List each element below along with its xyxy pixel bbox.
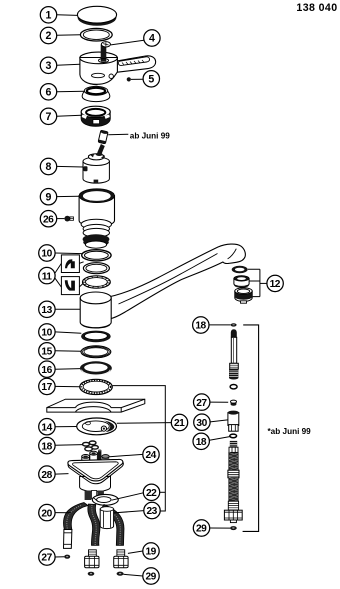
- callout 14 at (46.9,426.7): [39, 419, 55, 435]
- part 10 o-ring upper: [82, 250, 111, 261]
- leader line 23: [114, 511, 144, 513]
- part 19 collars: [89, 550, 125, 557]
- part 20 hose middle: [88, 504, 100, 545]
- leader line 6: [57, 90, 85, 93]
- svg-text:10: 10: [41, 328, 52, 339]
- svg-text:1: 1: [46, 10, 52, 22]
- part 27 cap right: [231, 400, 237, 406]
- callout 18 at (201.2,441.3): [193, 433, 209, 449]
- svg-text:26: 26: [43, 214, 54, 225]
- leader line 14: [55, 426, 77, 428]
- part 20 pipe end left: [64, 530, 72, 549]
- leader line 28: [55, 473, 68, 476]
- base plate: [47, 399, 145, 412]
- part 4 screw: [99, 42, 111, 63]
- svg-text:138 040: 138 040: [296, 2, 337, 14]
- svg-text:20: 20: [41, 508, 52, 519]
- part 20 hose left: [63, 503, 88, 530]
- callout 24 at (151,454.5): [143, 446, 159, 462]
- callout 27 at (46.9,557): [39, 549, 55, 565]
- svg-text:18: 18: [195, 321, 206, 332]
- callout 10 at (46.9,253): [39, 245, 55, 261]
- svg-text:21: 21: [174, 418, 185, 429]
- svg-text:12: 12: [270, 279, 281, 290]
- callout 1 at (48.5,14.8): [40, 7, 56, 23]
- svg-text:29: 29: [146, 572, 157, 583]
- svg-text:7: 7: [46, 111, 52, 123]
- svg-text:*ab Juni 99: *ab Juni 99: [268, 427, 312, 436]
- part 16 seal ring (black): [80, 361, 112, 375]
- callout 10 at (46.9,331.9): [39, 324, 55, 340]
- callout 18 at (46.9,445.6): [39, 437, 55, 453]
- callout 30 at (201.9,422.2): [194, 414, 210, 430]
- flex hose right: [224, 441, 242, 523]
- callout 4 at (151.9,38): [144, 30, 160, 46]
- callout 26 at (48.5,218.7): [40, 211, 56, 227]
- leader line 7: [57, 114, 82, 117]
- leader line 22: [112, 493, 144, 500]
- leader line 3: [57, 64, 80, 65]
- leader line 24: [109, 454, 142, 456]
- part 22 slip washer: [92, 494, 118, 505]
- callout 5 at (151.3,78.8): [143, 71, 159, 87]
- leader line 19: [128, 551, 143, 553]
- part 28 flange skirt: [80, 477, 111, 492]
- adapter ab Juni 99 (top): [98, 130, 108, 144]
- part 8 cartridge: [83, 144, 109, 183]
- leader line 20: [55, 512, 71, 514]
- leader line 8: [57, 165, 83, 168]
- part 2 o-ring: [80, 28, 112, 41]
- leader line 18 left: [55, 444, 83, 447]
- leader line 18 right lower: [209, 437, 229, 441]
- svg-text:30: 30: [196, 418, 207, 429]
- part 14 base gasket: [77, 418, 117, 435]
- part 24 studs: [82, 449, 109, 473]
- leader line 26: [57, 218, 65, 220]
- symbol box 11b: [61, 277, 79, 295]
- part 17 ring: [80, 379, 113, 394]
- svg-text:23: 23: [147, 506, 158, 517]
- svg-text:24: 24: [146, 450, 157, 461]
- part 7 mounting nut: [81, 106, 110, 126]
- callout 19 at (151,551): [143, 543, 159, 559]
- part 18 washer right top: [231, 323, 237, 326]
- leader line 18 right top: [209, 324, 231, 326]
- callout 8 at (48.5,166.5): [40, 158, 56, 174]
- callout 29 at (151,576): [143, 568, 159, 584]
- part 3 handle cup: [80, 52, 118, 85]
- leader line 29 bottom: [123, 574, 142, 576]
- part 12 aerator housing: [235, 288, 252, 303]
- leader line 2: [57, 34, 81, 37]
- leader line 22 to bracket: [160, 491, 166, 493]
- leader line 16: [55, 368, 80, 371]
- part 18 o-rings left: [83, 441, 99, 451]
- leader line 21: [117, 422, 171, 425]
- svg-text:11: 11: [42, 271, 53, 282]
- callout 17 at (46.9,386.4): [39, 378, 55, 394]
- callout 18 at (200.8,325): [193, 317, 209, 333]
- part 11 seal ring b: [83, 276, 111, 288]
- callout 13 at (46.9,309.3): [39, 301, 55, 317]
- part 6 ring: [82, 86, 110, 101]
- svg-text:16: 16: [41, 365, 52, 376]
- callout 2 at (48.5,35.5): [40, 27, 56, 43]
- leader lines 11 to boxes: [55, 264, 61, 288]
- part 23 mounting nut: [100, 507, 113, 529]
- part 9 cartridge cover: [79, 189, 114, 248]
- callout 22 at (151.5,492.3): [143, 484, 159, 500]
- part 26 screw: [64, 216, 73, 222]
- small ring right: [230, 385, 237, 389]
- part 13 spout base cylinder: [80, 292, 111, 328]
- part 28 flange plate: [68, 459, 123, 483]
- callout 29 at (201.5,528): [193, 520, 209, 536]
- svg-text:2: 2: [46, 30, 52, 42]
- leader line 10 upper: [55, 252, 82, 255]
- svg-text:27: 27: [41, 553, 52, 564]
- svg-text:29: 29: [196, 524, 207, 535]
- bracket 21 group: [113, 386, 166, 511]
- leader line 1: [57, 14, 78, 17]
- svg-text:9: 9: [46, 191, 52, 203]
- svg-text:15: 15: [41, 347, 52, 358]
- leader line 27 right: [210, 401, 228, 403]
- part 12 aerator insert: [234, 276, 249, 288]
- callout 7 at (48.5,116.3): [40, 108, 56, 124]
- leader line 17: [55, 385, 80, 387]
- leader line 30: [210, 420, 228, 422]
- part 29 washer right: [230, 526, 237, 530]
- svg-text:18: 18: [41, 441, 52, 452]
- part 28 studs below skirt: [85, 491, 104, 501]
- callout 3 at (48.5,65.3): [40, 57, 56, 73]
- svg-text:13: 13: [41, 305, 52, 316]
- part 10 o-ring lower (black): [81, 331, 111, 343]
- svg-text:10: 10: [41, 249, 52, 260]
- callout 21 at (179.5,422.5): [171, 414, 187, 430]
- leader lines boxes to rings: [80, 262, 84, 287]
- leader line 13: [55, 308, 80, 310]
- leader line 9: [57, 195, 79, 197]
- part 3 handle lever: [109, 56, 155, 73]
- svg-text:28: 28: [41, 470, 52, 481]
- symbol box 11a: [61, 255, 79, 273]
- svg-text:3: 3: [46, 60, 52, 72]
- svg-text:4: 4: [149, 33, 155, 45]
- callout 12 at (275.1,283.4): [267, 275, 283, 291]
- part 11 seal ring a: [83, 263, 109, 274]
- leader line 10 lower: [55, 332, 81, 333]
- leader line ab Juni 99 top: [108, 133, 128, 136]
- part 27 washer left: [64, 555, 70, 559]
- callout 16 at (46.9,369.2): [39, 361, 55, 377]
- part 5 plug button: [127, 77, 131, 81]
- callout 15 at (46.9,350.8): [39, 343, 55, 359]
- leader line 29 right: [210, 527, 230, 529]
- svg-text:14: 14: [41, 422, 52, 433]
- part 12 aerator o-ring: [232, 266, 248, 273]
- svg-text:6: 6: [46, 87, 52, 99]
- svg-text:ab Juni 99: ab Juni 99: [130, 132, 170, 141]
- svg-text:17: 17: [41, 382, 52, 393]
- bracket for part 12: [248, 269, 260, 296]
- part 29 washers bottom: [88, 572, 124, 576]
- leader line 15: [55, 350, 81, 353]
- part 1 cap: [77, 6, 116, 25]
- part 19 hex nuts: [85, 556, 128, 567]
- part 30 adapter: [228, 411, 239, 432]
- svg-text:8: 8: [46, 161, 52, 173]
- part 15 ring: [81, 346, 111, 358]
- part 13 spout arm: [104, 244, 245, 319]
- svg-text:19: 19: [146, 547, 157, 558]
- leader line 12: [260, 282, 267, 284]
- leader line 4: [111, 40, 144, 45]
- callout 20 at (46.9,512.6): [39, 504, 55, 520]
- part 18 o-ring right: [230, 434, 237, 438]
- callout 11 at (46.9,275.6): [39, 267, 55, 283]
- svg-text:18: 18: [196, 437, 207, 448]
- callout 23 at (152,510.5): [144, 502, 160, 518]
- bracket right ab Juni 99: [243, 325, 259, 532]
- svg-text:5: 5: [148, 74, 154, 86]
- svg-text:27: 27: [196, 398, 207, 409]
- part 20 hose right: [101, 505, 124, 546]
- leader line 5: [131, 78, 143, 80]
- connection pipe right: [229, 329, 238, 379]
- leader line 27 left: [55, 556, 64, 558]
- callout 6 at (48.5,91.8): [40, 84, 56, 100]
- svg-text:22: 22: [146, 488, 157, 499]
- callout 28 at (46.9,474.1): [39, 466, 55, 482]
- callout 27 at (201.7,402.1): [194, 394, 210, 410]
- callout 9 at (48.5,196.7): [40, 189, 56, 205]
